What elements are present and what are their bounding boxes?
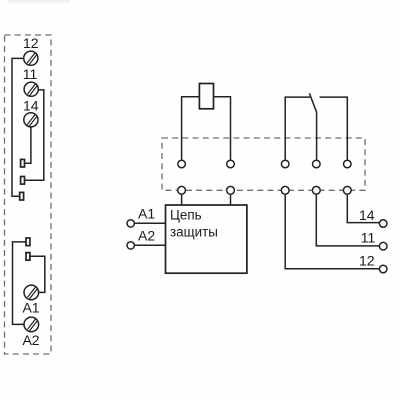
- contact: coil plug pin left (upper circle): [178, 160, 186, 168]
- wire: tab pin 4 to terminal A2: [13, 242, 27, 325]
- protection circuit box: [166, 205, 247, 273]
- tab pin 1 (to 14): [21, 159, 25, 167]
- tab pin 3 (to 12): [20, 192, 24, 200]
- svg-text:14: 14: [23, 97, 39, 113]
- wire: switch left contact to terminal 12: [285, 194, 379, 269]
- terminal 12 (schematic): [379, 265, 387, 273]
- switch blade: [309, 93, 316, 112]
- screw terminal 14: [24, 113, 38, 127]
- wire: switch middle contact to terminal 11: [316, 194, 379, 246]
- screw terminal A2: [24, 317, 39, 332]
- contact: switch plug pin right (upper circle): [344, 160, 352, 168]
- wire: socket to protection box right stub: [230, 194, 232, 205]
- socket contact: lower row switch right: [343, 186, 351, 194]
- wire: A1 to protection box: [134, 222, 165, 224]
- wire: terminal 11 to tab pin 2: [24, 90, 43, 180]
- terminal 11 (schematic): [379, 242, 387, 250]
- wire: socket to protection box left stub: [181, 194, 183, 205]
- socket contact: lower row switch middle: [312, 186, 320, 194]
- svg-text:11: 11: [361, 230, 376, 246]
- contact: coil plug pin right (upper circle): [227, 160, 235, 168]
- changeover contact: NC side wire (left vertical): [285, 97, 310, 160]
- svg-text:A2: A2: [138, 227, 155, 243]
- svg-text:A1: A1: [22, 299, 39, 315]
- wire: coil left lead: [182, 97, 200, 161]
- screw terminal 12: [24, 51, 38, 65]
- contact: switch plug pin left (upper circle): [281, 160, 289, 168]
- terminal A1 (schematic): [127, 220, 134, 227]
- svg-text:A1: A1: [138, 205, 155, 221]
- wire: tab pin 5 to terminal A1: [30, 256, 45, 292]
- wire: terminal 12 to tab pin 3: [12, 58, 24, 196]
- terminal block outline (dashed): [5, 35, 52, 354]
- svg-text:защиты: защиты: [170, 225, 218, 240]
- faint top-left artifact: [8, 0, 70, 3]
- tab pin 5 (to A1): [26, 253, 30, 261]
- tab pin 2 (to 11): [21, 177, 25, 185]
- svg-text:11: 11: [23, 66, 38, 82]
- terminal A2 (schematic): [127, 242, 134, 249]
- relay socket outline (dashed): [162, 138, 365, 190]
- contact: switch plug pin middle (upper circle): [313, 160, 321, 168]
- svg-text:12: 12: [359, 252, 375, 268]
- screw terminal 11: [24, 82, 38, 96]
- wire: A2 to protection box: [134, 244, 165, 246]
- relay coil K: [199, 84, 213, 109]
- terminal 14 (schematic): [379, 220, 387, 228]
- svg-text:A2: A2: [22, 332, 39, 348]
- socket contact: lower row switch left: [281, 186, 289, 194]
- svg-text:12: 12: [23, 35, 39, 51]
- tab pin 4 (to A2): [26, 238, 30, 246]
- socket contact: lower row coil right: [227, 186, 235, 194]
- socket contact: lower row coil left: [178, 186, 186, 194]
- screw terminal A1: [24, 285, 39, 300]
- wire: switch right contact to terminal 14: [347, 194, 379, 222]
- wire: coil right lead: [214, 97, 231, 161]
- wire: terminal 14 to tab pin 1: [24, 127, 31, 163]
- svg-text:14: 14: [359, 207, 375, 223]
- wire: common (middle vertical): [316, 112, 318, 160]
- wire: NO side (right): [320, 97, 348, 160]
- svg-text:Цепь: Цепь: [170, 207, 202, 222]
